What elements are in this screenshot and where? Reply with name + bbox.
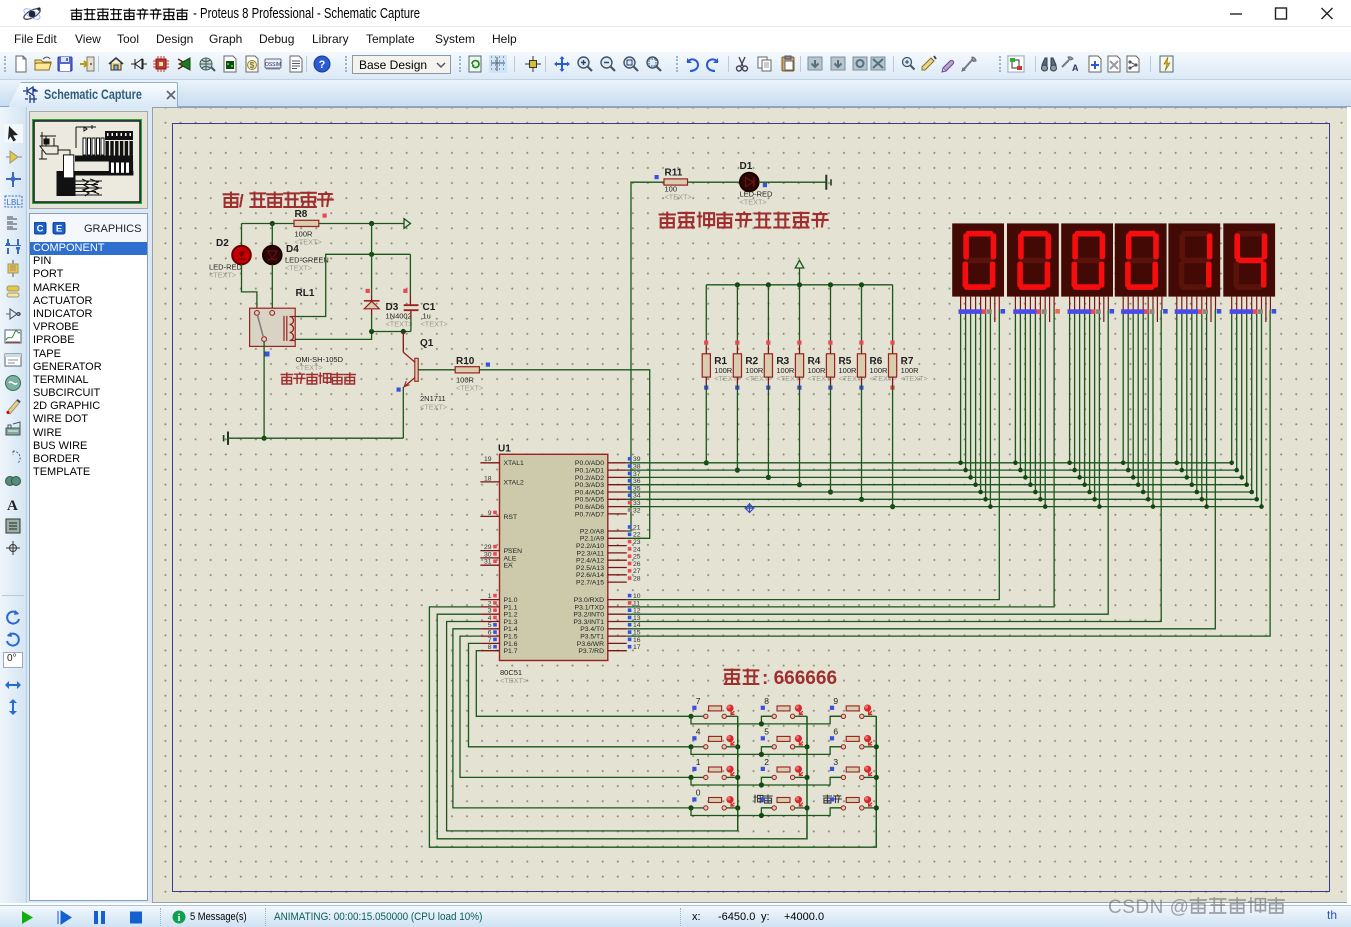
wire P0.5 segment bus [627,498,1257,500]
title bar [0,0,1351,27]
wire display 5 segment d drop [1191,310,1193,485]
junction dot display 4 seg d [1136,482,1141,487]
pin 9 RST of U1 [480,510,517,521]
junction dot column 1 row 4 [735,805,740,810]
push button key 取消 [754,795,807,811]
junction dot display 3 seg e [1087,490,1092,495]
wire R7 top [892,285,894,346]
push button key 5 [761,726,807,749]
wire display 5 segment f drop [1201,310,1203,499]
junction dot display 1 seg f [983,497,988,502]
junction dot D3 top [369,252,374,257]
corner display 6 seg c [1239,475,1244,480]
pin 5 P1.4 of U1 [480,622,517,633]
wire display 1 segment c drop [970,310,972,477]
capacitor C1 1u [404,302,448,329]
junction dot keypad row 4 mid riser [759,813,764,818]
pin 31 EA of U1 [480,559,513,570]
wire display 2 common cathode to P3.1 [627,310,1054,607]
marker red R7 top [890,341,894,345]
pin 12 P3.2/INT0 of U1 [573,608,640,619]
wire C1 top pin [409,254,411,294]
wire keypad row 4 mid riser [761,808,772,816]
pin 39 P0.0/AD0 of U1 [575,456,641,467]
resistor R8 [294,209,322,247]
junction dot relay pole at ground wire [262,436,267,441]
junction dot column 2 row 2 [804,744,809,749]
main area [0,107,27,903]
wire Q1 emitter to ground [402,387,404,438]
wire display 3 segment a drop [1069,310,1071,463]
push button key 6 [830,726,876,749]
wire display 3 segment e drop [1089,310,1091,492]
junction dot display 5 seg f [1200,497,1205,502]
pin 13 P3.3/INT1 of U1 [573,615,640,626]
junction dot display 5 seg a [1175,461,1180,466]
junction dot display 1 seg g [988,504,993,509]
wire display 4 segment g drop [1152,310,1154,507]
watermark [1108,897,1287,919]
junction dot keypad row 1 feed [688,714,693,719]
wire P1.5 to keypad row 3 [460,636,691,777]
wire keypad row 2 mid riser [761,747,772,755]
marker R4 bottom [797,386,801,390]
wire display 1 segment f drop [985,310,987,499]
junction dot column 1 row 2 [735,744,740,749]
wire display 2 segment f drop [1039,310,1041,499]
push button key 7 [691,696,738,719]
resistor R11 [664,168,692,202]
power terminal right [826,175,831,190]
wire display 2 segment b drop [1019,310,1021,470]
wire D3 C1 bottom link [372,331,411,333]
pin 11 P3.1/TXD of U1 [575,600,641,611]
junction dot R1 on P0.0 [704,460,709,465]
wire display 4 common cathode to P3.3 [627,310,1161,622]
junction dot display 2 seg c [1023,475,1028,480]
pin 3 P1.2 of U1 [480,608,517,619]
junction dot display 4 seg g [1151,504,1156,509]
wire display 3 common cathode to P3.2 [627,310,1108,614]
junction dot display 1 seg a [958,461,963,466]
wire keypad column 1 to P1.3 [447,622,738,831]
wire display 2 segment a drop [1014,310,1016,463]
pin 2 P1.1 of U1 [480,600,517,611]
pin 26 P2.5/A13 of U1 [576,561,641,572]
pin 25 P2.4/A12 of U1 [576,554,641,565]
7-segment display 1 digit 0 [952,223,1004,296]
wire display 1 segment d drop [975,310,977,485]
junction dot bus at R6 [859,282,864,287]
marker red R8 [323,214,327,218]
push button key 确认 [823,795,877,811]
ic U1 80C51 body [498,444,608,686]
push button key 9 [830,696,876,719]
resistor R6 100R [857,354,896,383]
marker R5 bottom [828,386,832,390]
marker red R2 top [735,341,739,345]
wire P1.6 to keypad row 2 [469,643,692,746]
wire display 6 segment d drop [1246,310,1248,485]
wire D3 top pin [371,254,373,294]
junction dot keypad row 4 feed [688,805,693,810]
wire R1 bottom to P0.0 [705,377,707,385]
wire keypad column 2 vertical [806,716,808,839]
pin 35 P0.4/AD4 of U1 [575,485,641,496]
wire display 4 segment e drop [1142,310,1144,492]
pin 21 P2.0/A8 of U1 [580,524,641,535]
junction dot column 3 row 2 [874,744,879,749]
corner display 6 seg g [1259,504,1264,509]
junction dot keypad row 3 feed [688,775,693,780]
annotation text 电磁锁继电器 [281,372,357,384]
pin 38 P0.1/AD1 of U1 [575,464,641,475]
marker R2 bottom [735,386,739,390]
display 2 pins [1013,296,1060,322]
relay RL1 OMI-SH-105D [250,288,344,372]
wire display 5 segment e drop [1196,310,1198,492]
marker red R5 top [828,341,832,345]
junction dot display 5 seg d [1190,482,1195,487]
wire R2 top [736,285,738,346]
marker red R1 top [704,341,708,345]
wire resistor top bus [706,284,892,286]
pin 14 P3.4/T0 of U1 [580,622,641,633]
annotation text 密码：666666 [724,668,837,689]
wire R6 bottom to P0.5 [861,377,863,385]
wire display 3 segment g drop [1098,310,1100,507]
wire R11 to D1 [688,181,741,183]
pin 22 P2.1/A9 of U1 [580,532,641,543]
pin 32 P0.7/AD7 of U1 [575,507,641,518]
wire R10 to P2.1 [479,370,649,539]
marker red R3 top [766,341,770,345]
svg-text:A: A [7,498,18,514]
pin 29 PSEN of U1 [480,544,522,555]
LED D2 LED-RED [209,238,251,280]
wire R3 bottom to P0.2 [767,377,769,385]
resistor R4 100R [795,354,834,383]
wire D2 cathode to relay [242,264,257,310]
pin 33 P0.6/AD6 of U1 [575,500,641,511]
svg-text:i: i [178,913,181,924]
wire R1 top [705,285,707,346]
marker red R6 top [859,341,863,345]
push button key 3 [830,757,876,780]
wire display 4 segment c drop [1132,310,1134,477]
wire display 6 segment g drop [1261,310,1263,507]
wire P0.3 segment bus [627,484,1247,486]
wire display 6 common cathode to P3.5 [627,310,1270,636]
pin 6 P1.5 of U1 [480,630,517,641]
marker R3 bottom [766,386,770,390]
pin 1 P1.0 of U1 [480,593,517,604]
junction dot display 2 seg a [1013,461,1018,466]
junction dot R3 on P0.2 [766,475,771,480]
junction dot at D2 top [270,221,275,226]
wire keypad column 3 to P1.1 [429,607,876,847]
junction dot R2 on P0.1 [735,468,740,473]
display 4 pins [1121,296,1168,322]
junction dot display 3 seg g [1097,504,1102,509]
wire D4 cathode to relay [271,264,273,310]
marker R7 bottom [890,386,894,390]
marker blue Q1 emitter [397,388,401,392]
wire display 6 segment f drop [1256,310,1258,499]
junction dot keypad row 3 mid riser [759,782,764,787]
resistor R7 100R [889,354,928,383]
transistor Q1 2N1711 [403,338,447,412]
pin 7 P1.6 of U1 [480,637,517,648]
wire R8 net top [242,223,405,225]
wire P0.1 segment bus [627,469,1237,471]
pin 4 P1.3 of U1 [480,615,517,626]
wire D2 anode [241,224,243,247]
wire display 1 segment a drop [960,310,962,463]
wire keypad column 3 vertical [875,716,877,847]
pin 30 ALE of U1 [480,551,516,562]
wire display 5 segment c drop [1186,310,1188,477]
7-segment display 4 digit 0 [1115,223,1167,296]
junction dot display 5 seg e [1195,490,1200,495]
wire display 3 segment f drop [1094,310,1096,499]
wire display 6 segment c drop [1241,310,1243,477]
pin 37 P0.2/AD2 of U1 [575,471,641,482]
push button key 8 [761,696,807,719]
wire R2 bottom to P0.1 [736,377,738,385]
corner display 6 seg f [1254,497,1259,502]
origin marker diamond [745,503,755,513]
junction dot display 2 seg f [1038,497,1043,502]
junction dot display 2 seg g [1043,504,1048,509]
marker R6 bottom [859,386,863,390]
wire R5 top [830,285,832,346]
pin 10 P3.0/RXD of U1 [574,593,641,604]
wire display 5 segment b drop [1181,310,1183,470]
resistor R2 100R [733,354,772,383]
resistor R10 [455,356,483,393]
pin 27 P2.6/A14 of U1 [576,568,641,579]
display 6 pins [1230,296,1277,322]
junction dot column 3 row 4 [874,805,879,810]
wire P1.7 to keypad row 1 [476,651,691,717]
wire P0.4 segment bus [627,491,1252,493]
junction dot D3 bottom [369,329,374,334]
toolbar [0,52,1351,80]
wire display 2 segment g drop [1044,310,1046,507]
marker blue D1 [763,183,767,187]
wire P0.2 segment bus [627,476,1242,478]
wire keypad column 2 to P1.2 [437,614,807,839]
junction dot display 3 seg d [1082,482,1087,487]
svg-text:E: E [56,224,62,235]
pin 19 XTAL1 of U1 [480,456,524,467]
wire keypad row 3 bus [691,777,841,785]
junction dot keypad row 2 mid riser [759,752,764,757]
junction dot display 1 seg d [973,482,978,487]
junction dot display 2 seg b [1018,468,1023,473]
push button key 4 [691,726,738,749]
junction dot display 3 seg a [1067,461,1072,466]
wire display 6 segment b drop [1236,310,1238,470]
wire Q1 base to R10 [418,369,455,371]
marker blue relay pole [265,352,270,357]
junction dot column 1 row 3 [735,775,740,780]
wire display 1 segment e drop [980,310,982,492]
pin 8 P1.7 of U1 [480,644,517,655]
junction dot display 4 seg a [1121,461,1126,466]
diode D3 1N4002 [364,301,413,329]
junction dot column 3 row 3 [874,775,879,780]
wire keypad row 3 mid riser [761,777,772,785]
push button key 1 [691,757,738,780]
junction dot R7 on P0.6 [890,504,895,509]
7-segment display 5 digit 1 [1168,223,1220,296]
wire relay coil bottom to D3 bottom [295,332,371,340]
wire display 4 segment f drop [1147,310,1149,499]
wire R11 feed from P2.0 [627,182,664,531]
pin 36 P0.3/AD3 of U1 [575,478,641,489]
marker red C1 [403,289,407,293]
tab bar [0,80,1351,107]
junction dot R6 on P0.5 [859,497,864,502]
junction dot bus at R5 [828,282,833,287]
resistor R3 100R [764,354,803,383]
status bar [0,905,1351,927]
junction dot display 3 seg c [1077,475,1082,480]
wire display 6 segment a drop [1231,310,1233,463]
wire display 2 segment c drop [1024,310,1026,477]
wire power to resistor bus [799,268,801,285]
junction dot R5 on P0.4 [828,489,833,494]
junction dot keypad row 1 mid riser [759,721,764,726]
corner display 6 seg e [1249,490,1254,495]
marker R1 bottom [704,386,708,390]
wire P0.0 segment bus [627,462,1232,464]
LED D4 LED-GREEN [263,244,329,273]
junction dot display 1 seg e [978,490,983,495]
wire display 6 segment e drop [1251,310,1253,492]
menu bar [0,27,1351,52]
wire display 5 common cathode to P3.4 [627,310,1216,629]
wire C1 bottom pin [410,311,412,318]
resistor R1 100R [702,354,741,383]
wire relay pole to ground [263,342,265,439]
wire keypad row 1 mid riser [761,716,772,724]
pin 15 P3.5/T1 of U1 [580,630,641,641]
wire display 2 segment d drop [1029,310,1031,485]
svg-text:$: $ [250,61,255,70]
junction dot at R8 output [369,221,374,226]
pin 18 XTAL2 of U1 [480,475,524,486]
wire display 4 segment b drop [1127,310,1129,470]
wire display 1 segment g drop [989,310,991,507]
svg-text:C: C [37,224,44,235]
wire display 4 segment d drop [1137,310,1139,485]
wire Q1 collector [402,332,404,353]
junction dot keypad row 2 feed [688,744,693,749]
junction dot Q1 collector node [401,329,406,334]
wire ground rail [228,437,403,439]
junction dot R4 on P0.3 [797,482,802,487]
7-segment display 6 digit 4 [1223,223,1275,296]
junction dot display 3 seg b [1072,468,1077,473]
junction dot display 4 seg e [1141,490,1146,495]
7-segment display 2 digit 0 [1007,223,1059,296]
corner display 6 seg b [1234,468,1239,473]
junction dot bus at R4 [797,282,802,287]
junction dot bus at R3 [766,282,771,287]
corner display 6 seg a [1229,461,1234,466]
junction dot display 5 seg b [1180,468,1185,473]
wire D1 to power rail [759,181,827,183]
svg-text:LBL: LBL [7,198,22,207]
wire display 1 segment b drop [965,310,967,470]
pin 34 P0.5/AD5 of U1 [575,493,641,504]
junction dot display 4 seg b [1126,468,1131,473]
wire display 5 segment a drop [1176,310,1178,463]
junction dot display 1 seg c [968,475,973,480]
wire display 3 segment d drop [1084,310,1086,485]
canvas [152,107,1347,903]
junction dot display 5 seg g [1204,504,1209,509]
wire D4 anode [271,224,273,247]
LED D1 LED-RED [740,161,774,207]
resistor R5 100R [826,354,865,383]
junction dot display 4 seg c [1131,475,1136,480]
wire R5 bottom to P0.4 [830,377,832,385]
wire display 4 segment a drop [1122,310,1124,463]
annotation text 连错三次报警指示灯 [659,212,829,228]
junction dot bus at R2 [735,282,740,287]
junction dot display 1 seg b [963,468,968,473]
wire display 1 common cathode to P3.0 [627,310,1000,600]
junction dot display 5 seg c [1185,475,1190,480]
marker blue R11 [655,175,659,179]
junction dot column 2 row 3 [804,775,809,780]
wire keypad column 1 vertical [737,716,739,831]
wire D3 bottom pin [371,309,373,315]
pin 24 P2.3/A11 of U1 [577,546,641,557]
wire R7 bottom to P0.6 [892,377,894,385]
wire display 3 segment b drop [1074,310,1076,470]
wire display 5 segment g drop [1206,310,1208,507]
corner display 6 seg d [1244,482,1249,487]
wire keypad row 1 bus [691,716,841,724]
7-segment display 3 digit 0 [1061,223,1113,296]
power terminal up arrow [795,260,804,268]
junction dot display 2 seg e [1033,490,1038,495]
junction dot column 2 row 4 [804,805,809,810]
wire P1.4 to keypad row 4 [453,629,691,808]
svg-text:OSSIM: OSSIM [265,62,281,68]
junction dot display 3 seg f [1092,497,1097,502]
marker blue R10 [486,363,490,367]
wire R6 top [861,285,863,346]
annotation text 开/关锁指示灯 [223,191,334,211]
svg-text:?: ? [319,59,326,71]
display 1 pins [959,296,1006,322]
wire keypad row 2 bus [691,747,841,755]
wire relay coil top feed [295,254,410,316]
ground symbol [224,432,228,445]
wire P0.6 segment bus [627,506,1262,508]
push button key 0 [691,787,738,810]
svg-text:A: A [1072,63,1078,73]
wire R8 junction down to D3 node [371,224,373,255]
wire display 2 segment e drop [1034,310,1036,492]
wire R3 top [767,285,769,346]
